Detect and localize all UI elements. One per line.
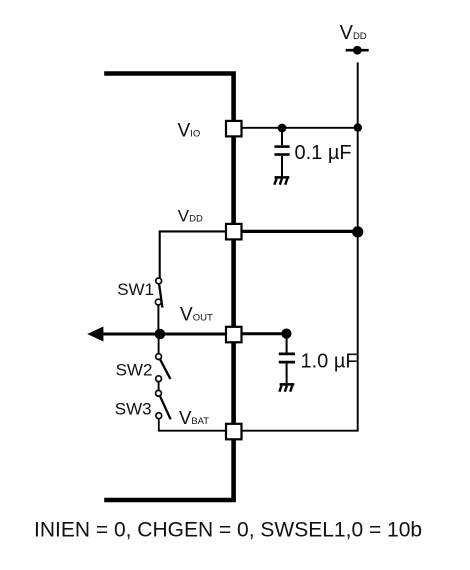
wire VDD pin to rail junction (thick)	[242, 230, 358, 233]
svg-text:0.1 µF: 0.1 µF	[295, 142, 352, 164]
switch SW1 (closed)	[155, 278, 162, 308]
pin VIO (square terminal)	[226, 121, 242, 136]
node junction dot: VOUT / C2 tap	[281, 329, 291, 339]
wire VOUT node down to SW2	[158, 334, 160, 354]
wire VOUT pin to capacitor node (thick)	[242, 332, 287, 335]
VDD supply terminal (dot with bar)	[346, 46, 369, 55]
svg-text:SW3: SW3	[115, 400, 152, 419]
wire SW2 bottom to SW3 top	[158, 381, 160, 390]
wire SW1 bottom to VOUT node	[157, 305, 159, 334]
pin VDD (square terminal)	[226, 224, 242, 240]
capacitor C2 1.0uF	[279, 334, 295, 383]
capacitor C1 0.1uF	[274, 128, 289, 177]
ground for C1	[274, 177, 289, 184]
node junction dot: VIO / C1 tap	[278, 124, 287, 133]
switch SW2 (open)	[156, 354, 171, 382]
node junction dot: VIO wire x rail	[354, 123, 362, 131]
ground for C2	[279, 384, 294, 391]
wire VDD rail (below terminal gap, down to VBAT wire corner)	[242, 62, 358, 430]
svg-text:SW1: SW1	[117, 280, 154, 299]
arrow VOUT output to the left	[87, 327, 226, 342]
wire SW3 bottom to VBAT pin	[159, 418, 226, 430]
node junction dot: VDD wire x rail	[352, 226, 363, 237]
wire VDD pin left and down to SW1	[160, 231, 226, 278]
switch SW3 (open)	[156, 390, 171, 419]
pin VOUT (square terminal)	[226, 327, 242, 343]
svg-text:SW2: SW2	[116, 360, 153, 379]
IC boundary (chip edge, thick C-shape)	[104, 74, 233, 501]
node junction dot: VOUT / switches / arrow	[155, 329, 166, 340]
svg-text:INIEN = 0, CHGEN = 0, SWSEL1,0: INIEN = 0, CHGEN = 0, SWSEL1,0 = 10b	[34, 519, 422, 542]
pin VBAT (square terminal)	[226, 424, 242, 440]
wire VIO pin to right rail	[242, 127, 358, 129]
svg-text:1.0 µF: 1.0 µF	[301, 351, 358, 373]
